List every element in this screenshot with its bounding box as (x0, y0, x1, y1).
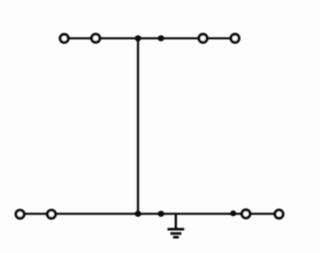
node: lower rail junction (158, 211, 164, 217)
terminal: lower deck clamp 1 (16, 210, 24, 218)
node: upper rail junction (158, 35, 164, 41)
terminal: lower deck clamp 3 (242, 210, 250, 218)
terminal: upper deck clamp 2 (92, 34, 100, 42)
wire: upper deck rail (64, 37, 235, 39)
node: lower rail junction right (230, 210, 236, 216)
node: lower junction at vertical link (135, 211, 141, 217)
ground (168, 214, 185, 237)
terminal: lower deck clamp 4 (275, 210, 283, 218)
terminal: lower deck clamp 2 (47, 210, 55, 218)
terminal: upper deck clamp 1 (60, 34, 68, 42)
wire: lower deck rail (20, 213, 279, 215)
wire: vertical commoning link (137, 38, 139, 214)
node: upper junction at vertical link (135, 35, 141, 41)
terminal: upper deck clamp 3 (199, 34, 207, 42)
terminal: upper deck clamp 4 (231, 34, 239, 42)
